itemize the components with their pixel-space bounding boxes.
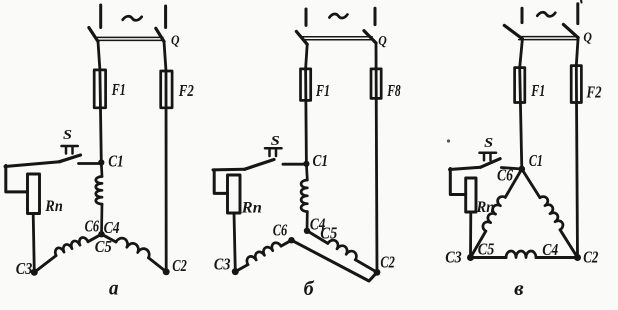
resistor Rp (circuit v) — [466, 178, 476, 212]
svg-text:б: б — [304, 278, 315, 300]
wire winding to node C3 (circuit b) — [235, 265, 248, 272]
wire left winding to C3 (circuit v) — [471, 231, 486, 257]
pushbutton S actuator (circuit b) — [265, 148, 282, 156]
AC source symbol ~ (circuit a) — [123, 16, 142, 20]
switch Q linkage bar (circuit v) — [519, 37, 579, 40]
svg-text:C2: C2 — [583, 247, 598, 266]
node C4 (circuit b) — [304, 228, 310, 234]
wire Rp to node C3 (circuit v) — [469, 212, 472, 258]
wire apex to right winding (circuit v) — [522, 169, 540, 198]
resistor Rp (circuit a) — [28, 174, 40, 214]
svg-text:F1: F1 — [315, 81, 330, 100]
fuse F2 (circuit a) — [161, 71, 172, 108]
switch S fixed contact wire (circuit a) — [79, 162, 102, 165]
AC supply lead right (circuit v) — [576, 4, 579, 24]
AC supply lead right (circuit a) — [164, 6, 167, 28]
fuse F2 (circuit v) — [571, 66, 581, 103]
wire bracket left (circuit a) — [6, 166, 28, 192]
wire blade to fuse F2 (circuit b) — [375, 43, 378, 69]
svg-text:C6: C6 — [273, 221, 288, 240]
AC source symbol ~ (circuit v) — [537, 12, 555, 16]
wire bracket to switch S (circuit b) — [213, 168, 245, 172]
winding star to C2 (circuit a) — [116, 238, 149, 258]
node C2 (circuit a) — [163, 268, 170, 275]
wire winding to node C2 (circuit a) — [149, 258, 167, 272]
scan speck — [447, 139, 450, 142]
wire blade to fuse F2 (circuit v) — [576, 38, 578, 66]
wire blade to fuse F2 (circuit a) — [164, 42, 166, 72]
AC supply lead left (circuit a) — [99, 5, 102, 28]
wire winding to node C3 (circuit a) — [34, 256, 56, 273]
svg-text:F2: F2 — [178, 81, 194, 100]
svg-text:C6: C6 — [85, 217, 100, 236]
wire F2 to node C2 (circuit a) — [165, 71, 168, 272]
svg-text:C5: C5 — [478, 240, 495, 259]
fuse F1 (circuit b) — [301, 69, 311, 101]
switch Q blade left (circuit b) — [296, 32, 307, 45]
svg-text:C3: C3 — [16, 259, 33, 278]
svg-text:S: S — [271, 134, 280, 149]
star point node (circuit a) — [98, 231, 104, 237]
wire star to winding C6 (circuit a) — [88, 234, 102, 242]
wire C1 to winding (circuit b) — [305, 164, 309, 180]
wire Rp to node C3 (circuit b) — [234, 213, 235, 272]
node C2 (circuit v) — [574, 254, 581, 261]
node C1 apex (circuit v) — [519, 166, 526, 173]
page mark top right — [580, 0, 583, 3]
wire C1 to winding (circuit a) — [100, 163, 103, 177]
node C3 (circuit v) — [467, 254, 474, 261]
switch S fixed contact wire (circuit b) — [283, 163, 306, 166]
svg-text:C4: C4 — [104, 218, 120, 237]
svg-text:C3: C3 — [445, 247, 462, 266]
AC supply lead left (circuit b) — [305, 9, 308, 25]
wire star to winding C5 (circuit a) — [102, 234, 117, 242]
wire C6 to winding (circuit b) — [281, 240, 292, 246]
wire C4 to winding C5 (circuit b) — [307, 231, 328, 244]
svg-text:Rп: Rп — [44, 198, 62, 215]
svg-text:C6: C6 — [497, 166, 514, 185]
switch Q linkage bar (circuit a) — [97, 37, 164, 40]
wire bracket left (circuit b) — [214, 170, 227, 194]
svg-text:F1: F1 — [111, 80, 126, 99]
svg-text:C1: C1 — [313, 151, 329, 170]
wire winding to node C4 (circuit b) — [306, 212, 309, 231]
pushbutton S actuator (circuit a) — [62, 146, 78, 154]
wire blade to fuse F1 (circuit a) — [98, 42, 100, 71]
wire blade to fuse F1 (circuit b) — [306, 44, 308, 69]
fuse F2 (circuit b) — [371, 69, 381, 99]
svg-text:в: в — [514, 278, 524, 300]
wire right winding to C2 (circuit v) — [560, 230, 577, 258]
switch S blade (circuit b) — [245, 160, 275, 170]
wire F2 to node C2 (circuit v) — [576, 66, 577, 258]
wire C3 to bottom winding (circuit v) — [471, 256, 507, 259]
svg-text:S: S — [484, 136, 493, 151]
resistor Rp (circuit b) — [228, 175, 241, 213]
svg-text:C2: C2 — [172, 256, 187, 275]
winding C3-C2 bottom side (circuit v) — [506, 251, 536, 257]
node C1 (circuit b) — [303, 161, 309, 167]
wire F2 to node C2 (circuit b) — [375, 69, 379, 272]
node C2 (circuit b) — [374, 269, 381, 276]
switch S blade (circuit v) — [481, 159, 501, 168]
svg-text:F8: F8 — [386, 81, 400, 100]
winding C1-C4 (circuit a) — [96, 177, 102, 205]
wire C6 to C2 (circuit b) — [292, 240, 378, 281]
svg-text:C1: C1 — [108, 152, 124, 171]
svg-text:C2: C2 — [380, 252, 395, 271]
svg-text:C4: C4 — [542, 240, 558, 259]
AC supply lead right (circuit b) — [374, 8, 377, 24]
fuse F1 (circuit a) — [94, 70, 105, 108]
wire bracket to switch S (circuit a) — [5, 162, 60, 167]
switch S blade (circuit a) — [60, 155, 81, 162]
pushbutton S actuator (circuit v) — [480, 153, 497, 161]
wire F1 to node C1 (circuit b) — [304, 69, 308, 164]
wire bracket left (circuit v) — [450, 169, 465, 195]
wire bracket to switch S (circuit v) — [450, 167, 481, 169]
switch Q blade right (circuit v) — [563, 24, 578, 37]
switch Q linkage bar (circuit b) — [303, 37, 373, 40]
wire apex to left winding (circuit v) — [505, 169, 522, 197]
winding star to C3 (circuit a) — [55, 237, 88, 255]
wire F1 to node C1 (circuit a) — [100, 70, 101, 163]
winding C6-C3 (circuit b) — [247, 243, 281, 265]
AC supply lead left (circuit v) — [521, 8, 524, 22]
wire bottom winding to C2 (circuit v) — [536, 256, 578, 259]
svg-text:а: а — [109, 277, 119, 299]
switch Q blade left (circuit a) — [89, 28, 98, 42]
svg-text:Q: Q — [171, 34, 180, 49]
winding C1-C3 left side (circuit v) — [483, 197, 505, 232]
svg-text:C5: C5 — [95, 237, 112, 256]
wire Rp to node C3 (circuit a) — [33, 214, 34, 273]
svg-text:F2: F2 — [586, 83, 602, 102]
switch Q blade right (circuit b) — [364, 31, 376, 43]
svg-text:Q: Q — [378, 34, 387, 49]
svg-text:Q: Q — [583, 30, 592, 45]
winding C5-C2 (circuit b) — [328, 240, 357, 260]
winding C1-C4 (circuit b) — [301, 180, 307, 212]
switch Q blade left (circuit v) — [504, 25, 522, 39]
fuse F1 (circuit v) — [515, 68, 525, 103]
svg-text:Rп: Rп — [241, 199, 262, 216]
wire F1 to node C1 (circuit v) — [520, 68, 522, 169]
svg-text:C1: C1 — [529, 151, 543, 170]
winding C1-C2 right side (circuit v) — [540, 197, 563, 230]
wire blade to fuse F1 (circuit v) — [520, 39, 523, 68]
svg-text:S: S — [63, 128, 72, 143]
switch Q blade right (circuit a) — [156, 28, 164, 41]
node C3 (circuit b) — [232, 268, 239, 275]
wire winding to node C2 (circuit b) — [355, 260, 377, 273]
switch S fixed contact wire (circuit v) — [501, 168, 522, 170]
node C1 (circuit a) — [98, 159, 104, 165]
node C6 (circuit b) — [288, 237, 294, 243]
svg-text:C3: C3 — [214, 255, 231, 274]
wire winding to star point (circuit a) — [100, 204, 103, 234]
svg-text:C5: C5 — [320, 224, 337, 243]
AC source symbol ~ (circuit b) — [329, 14, 347, 18]
svg-text:F1: F1 — [530, 81, 545, 100]
node C3 (circuit a) — [31, 269, 38, 276]
